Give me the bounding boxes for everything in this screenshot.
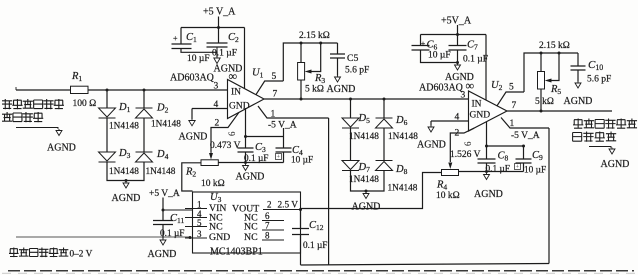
wire supply rail U2: [421, 34, 487, 36]
svg-text:U2: U2: [491, 80, 503, 92]
wire C3/C4 ground bus: [218, 162, 283, 164]
svg-text:10 kΩ: 10 kΩ: [201, 179, 225, 189]
diode D6 1N4148: [376, 117, 393, 119]
capacitor C4: [283, 128, 285, 148]
capacitor C11: [162, 210, 164, 220]
svg-text:0–2 V: 0–2 V: [70, 250, 93, 260]
svg-text:+: +: [173, 34, 178, 43]
node C8 ground junction: [485, 170, 488, 173]
svg-text:1N4148: 1N4148: [388, 132, 418, 142]
svg-text:0.1 µF: 0.1 µF: [486, 165, 510, 175]
node R5 top: [540, 52, 543, 55]
svg-text:3: 3: [197, 229, 202, 239]
node C6/C7 ground junction: [456, 61, 459, 64]
capacitor C10: [577, 53, 579, 66]
svg-text:1N4148: 1N4148: [109, 122, 139, 132]
svg-text:1N4148: 1N4148: [109, 167, 139, 177]
label input signal 取样变换后的回波信号: [2, 99, 12, 109]
svg-text:100 Ω: 100 Ω: [73, 99, 97, 109]
svg-text:7: 7: [512, 101, 517, 111]
wire +5V to U3 pin1: [163, 209, 193, 211]
svg-text:AGND: AGND: [601, 159, 630, 170]
wire rail to U1 pin8 top: [244, 28, 246, 89]
node D5 junction: [349, 98, 352, 101]
ground AGND (C1/C2): [214, 58, 220, 64]
svg-text:∞: ∞: [229, 69, 238, 83]
IC U3 MC1403BP1 box: [193, 192, 301, 253]
node R3 bottom on output wire: [300, 98, 303, 101]
svg-text:GND: GND: [470, 111, 491, 121]
wire -5V_A down (U1): [328, 118, 330, 265]
svg-text:5: 5: [509, 83, 514, 93]
svg-text:5 kΩ: 5 kΩ: [535, 97, 554, 107]
svg-text:AD603AQ: AD603AQ: [170, 73, 215, 84]
svg-text:AGND: AGND: [327, 84, 356, 95]
svg-text:10 kΩ: 10 kΩ: [436, 191, 460, 201]
svg-text:C5: C5: [347, 53, 359, 64]
svg-text:NC: NC: [244, 222, 258, 233]
ground AGND (C6/C7): [455, 65, 461, 70]
svg-text:C2: C2: [228, 32, 239, 44]
svg-text:AGND: AGND: [148, 249, 177, 260]
capacitor C9: [523, 146, 525, 159]
svg-text:1N4148: 1N4148: [146, 167, 176, 177]
wire input reference stub: [16, 128, 58, 130]
svg-text:AGND: AGND: [474, 189, 503, 200]
svg-text:1.526 V: 1.526 V: [450, 150, 481, 160]
wire output reference stub: [589, 147, 611, 149]
wire input to R1: [16, 89, 71, 91]
svg-text:+5 V_A: +5 V_A: [203, 7, 236, 18]
capacitor C2: [218, 28, 220, 43]
svg-text:C10: C10: [588, 59, 603, 72]
svg-text:1N4148: 1N4148: [388, 184, 418, 194]
svg-text:+: +: [421, 40, 426, 49]
diode D5 1N4148: [342, 118, 359, 127]
svg-text:5 kΩ: 5 kΩ: [305, 85, 324, 95]
ground AGND (D3/D4): [123, 183, 129, 188]
svg-text:MC1403BP1: MC1403BP1: [210, 247, 263, 258]
svg-text:10 µF: 10 µF: [187, 54, 210, 64]
op-amp U1 AD603AQ: [228, 80, 265, 119]
wire C1 top lead: [180, 28, 182, 44]
svg-text:10 µF: 10 µF: [291, 156, 313, 166]
svg-text:AGND: AGND: [236, 172, 265, 183]
svg-text:R4: R4: [436, 180, 447, 192]
svg-text:2.15 kΩ: 2.15 kΩ: [299, 31, 330, 41]
ground AGND (D7/D8): [363, 194, 369, 199]
svg-text:R2: R2: [185, 167, 196, 179]
ground AGND (C8/C9): [484, 175, 490, 180]
svg-text:D2: D2: [156, 103, 169, 115]
potentiometer R5: [540, 53, 542, 72]
wire D6-D8 link: [383, 129, 385, 161]
svg-text:D1: D1: [118, 102, 131, 114]
node input terminal: [15, 87, 17, 90]
ground AGND (output): [609, 149, 615, 154]
wire pin6 to C4: [246, 136, 284, 138]
wire rail to U2 pin8 top: [485, 35, 487, 101]
diode D3 1N4148: [99, 152, 116, 161]
svg-text:+5 V_A: +5 V_A: [149, 189, 180, 199]
ground AGND (C10): [575, 83, 581, 88]
svg-text:C9: C9: [532, 150, 543, 162]
svg-text:1N4148: 1N4148: [349, 132, 379, 142]
capacitor C7: [457, 35, 459, 46]
wire D6 column: [383, 99, 385, 118]
svg-text:AGND: AGND: [417, 140, 446, 151]
svg-text:C7: C7: [467, 40, 478, 52]
node +5V_A rail junction: [217, 26, 220, 29]
svg-text:C3: C3: [255, 142, 266, 154]
wire D1-D3 link: [106, 119, 108, 153]
capacitor C6: [420, 35, 422, 46]
node D6 junction: [383, 98, 386, 101]
node diode bus center: [125, 179, 128, 182]
svg-text:R5: R5: [550, 84, 561, 96]
node VOUT junction: [299, 208, 302, 211]
svg-text:IN: IN: [472, 100, 482, 110]
diode D1 1N4148: [99, 108, 116, 117]
capacitor C12: [300, 210, 302, 229]
diode D8 1N4148: [376, 160, 393, 162]
op-amp U2 AD603AQ: [469, 91, 508, 131]
svg-text:2: 2: [267, 200, 272, 210]
svg-text:NC: NC: [209, 222, 223, 233]
ground AGND (C11): [160, 240, 166, 245]
capacitor C3: [238, 148, 254, 152]
capacitor C8: [486, 146, 488, 159]
wire D5-D7 link: [350, 129, 352, 161]
svg-text:5.6 pF: 5.6 pF: [345, 66, 369, 76]
svg-text:AGND: AGND: [112, 193, 141, 204]
svg-text:3: 3: [461, 91, 466, 101]
node R3 wiper rail: [319, 42, 322, 45]
svg-text:2.5 V: 2.5 V: [278, 201, 299, 211]
svg-text:7: 7: [273, 90, 278, 100]
wire control bus: [16, 236, 190, 238]
svg-text:10 µF: 10 µF: [428, 51, 451, 61]
svg-text:D3: D3: [118, 148, 131, 160]
wire +5V_A stub: [218, 17, 220, 28]
ground AGND (C5): [335, 77, 341, 82]
svg-text:U1: U1: [252, 68, 264, 80]
wire feedback rail U1: [283, 43, 337, 81]
svg-text:+: +: [516, 164, 520, 171]
wire R4 left to 2.5V feed: [301, 173, 442, 209]
wire D7/D8 bottom bus: [351, 171, 385, 191]
svg-text:C12: C12: [309, 220, 324, 232]
svg-text:0.1 µF: 0.1 µF: [212, 49, 237, 59]
svg-text:0.1 µF: 0.1 µF: [303, 241, 327, 251]
svg-text:R1: R1: [71, 71, 82, 83]
diode D4 1N4148: [136, 151, 153, 153]
diode D2 1N4148: [136, 107, 153, 109]
ground AGND (input): [56, 131, 62, 136]
wire -5V_A down (U2): [548, 128, 550, 264]
svg-text:3: 3: [214, 82, 219, 92]
wire D1 column: [106, 90, 108, 108]
node U2 pin6 junction: [485, 145, 488, 148]
svg-text:C8: C8: [498, 151, 509, 163]
wire D2-D4 link: [143, 119, 145, 153]
capacitor C5: [337, 43, 339, 54]
svg-text:6: 6: [463, 141, 473, 146]
node control bus to U3 GND: [189, 236, 192, 239]
wire R1 to U1 pin3: [88, 89, 228, 91]
R3 wiper arrow: [305, 70, 312, 74]
svg-text:6: 6: [265, 211, 270, 221]
node R3 top: [300, 42, 303, 45]
node D2 column junction: [143, 89, 146, 92]
node D1 column junction: [106, 89, 109, 92]
label gain control 增益控制电压0-2 V: [9, 248, 19, 258]
ground AGND (U2 pin4): [428, 127, 434, 132]
svg-text:-5 V_A: -5 V_A: [511, 131, 540, 141]
node C3 ground junction: [244, 161, 247, 164]
svg-text:2.15 kΩ: 2.15 kΩ: [539, 41, 570, 51]
capacitor C1: [172, 44, 192, 49]
svg-text:C1: C1: [186, 32, 197, 44]
svg-text:0.473 V: 0.473 V: [210, 141, 241, 151]
potentiometer R4: [442, 170, 459, 176]
wire D5 column: [350, 99, 352, 118]
svg-text:R3: R3: [314, 73, 325, 85]
resistor R1: [71, 86, 89, 93]
wire feedback rail U2: [524, 53, 578, 92]
R5 wiper arrow: [545, 79, 552, 83]
svg-text:IN: IN: [231, 88, 241, 98]
svg-text:D5: D5: [358, 113, 371, 125]
wire diode bottom bus: [107, 163, 144, 181]
svg-text:1N4148: 1N4148: [349, 175, 379, 185]
svg-text:D8: D8: [395, 164, 408, 176]
svg-text:D4: D4: [156, 149, 169, 161]
svg-text:-5 V_A: -5 V_A: [268, 121, 297, 131]
node +5V_A rail (U2): [456, 33, 459, 36]
svg-text:1N4148: 1N4148: [151, 120, 181, 130]
svg-text:AGND: AGND: [352, 202, 381, 213]
svg-text:AGND: AGND: [179, 132, 208, 143]
diode D7 1N4148: [342, 161, 359, 170]
potentiometer R2: [201, 160, 218, 166]
svg-text:AD603AQ: AD603AQ: [419, 83, 464, 94]
svg-text:AGND: AGND: [445, 72, 474, 83]
wire supply rail U1: [181, 27, 245, 29]
svg-text:7: 7: [265, 221, 270, 231]
wire figure bottom rule: [8, 270, 634, 272]
svg-text:+: +: [277, 154, 281, 161]
wire D2 column: [143, 90, 145, 108]
svg-text:C11: C11: [170, 213, 185, 225]
node R5 bottom: [540, 110, 543, 113]
node pin6/-5V junction: [244, 135, 247, 138]
wire C8/C9 ground bus: [459, 171, 524, 173]
wire C1 bottom to ground wire: [181, 49, 217, 58]
ground AGND (U1 pin4): [189, 121, 195, 126]
svg-text:1: 1: [197, 200, 202, 210]
svg-text:GND: GND: [209, 232, 230, 243]
potentiometer R3: [300, 43, 302, 63]
svg-text:+5V_A: +5V_A: [441, 16, 472, 27]
svg-text:6: 6: [227, 131, 237, 136]
node D bus center: [365, 190, 368, 193]
svg-text:D6: D6: [395, 115, 408, 127]
svg-text:10 µF: 10 µF: [524, 166, 546, 176]
svg-text:AGND: AGND: [564, 96, 593, 107]
svg-text:NC: NC: [244, 232, 258, 243]
svg-text:GND: GND: [229, 102, 250, 112]
label output signal 时变放大后的回波信号: [573, 119, 583, 129]
wire -5V_A bottom rail: [301, 264, 550, 266]
ground AGND (C3/C4): [243, 166, 249, 171]
svg-text:5.6 pF: 5.6 pF: [587, 75, 611, 85]
svg-text:AGND: AGND: [47, 143, 76, 154]
wire R2 left to U3: [182, 163, 201, 191]
svg-text:0.1 µF: 0.1 µF: [463, 55, 488, 65]
svg-text:D7: D7: [358, 162, 371, 174]
svg-text:0.1 µF: 0.1 µF: [160, 229, 184, 239]
wire pin6 to C9 top: [487, 145, 524, 147]
svg-text:8: 8: [265, 231, 270, 241]
node C11 junction: [162, 209, 165, 212]
